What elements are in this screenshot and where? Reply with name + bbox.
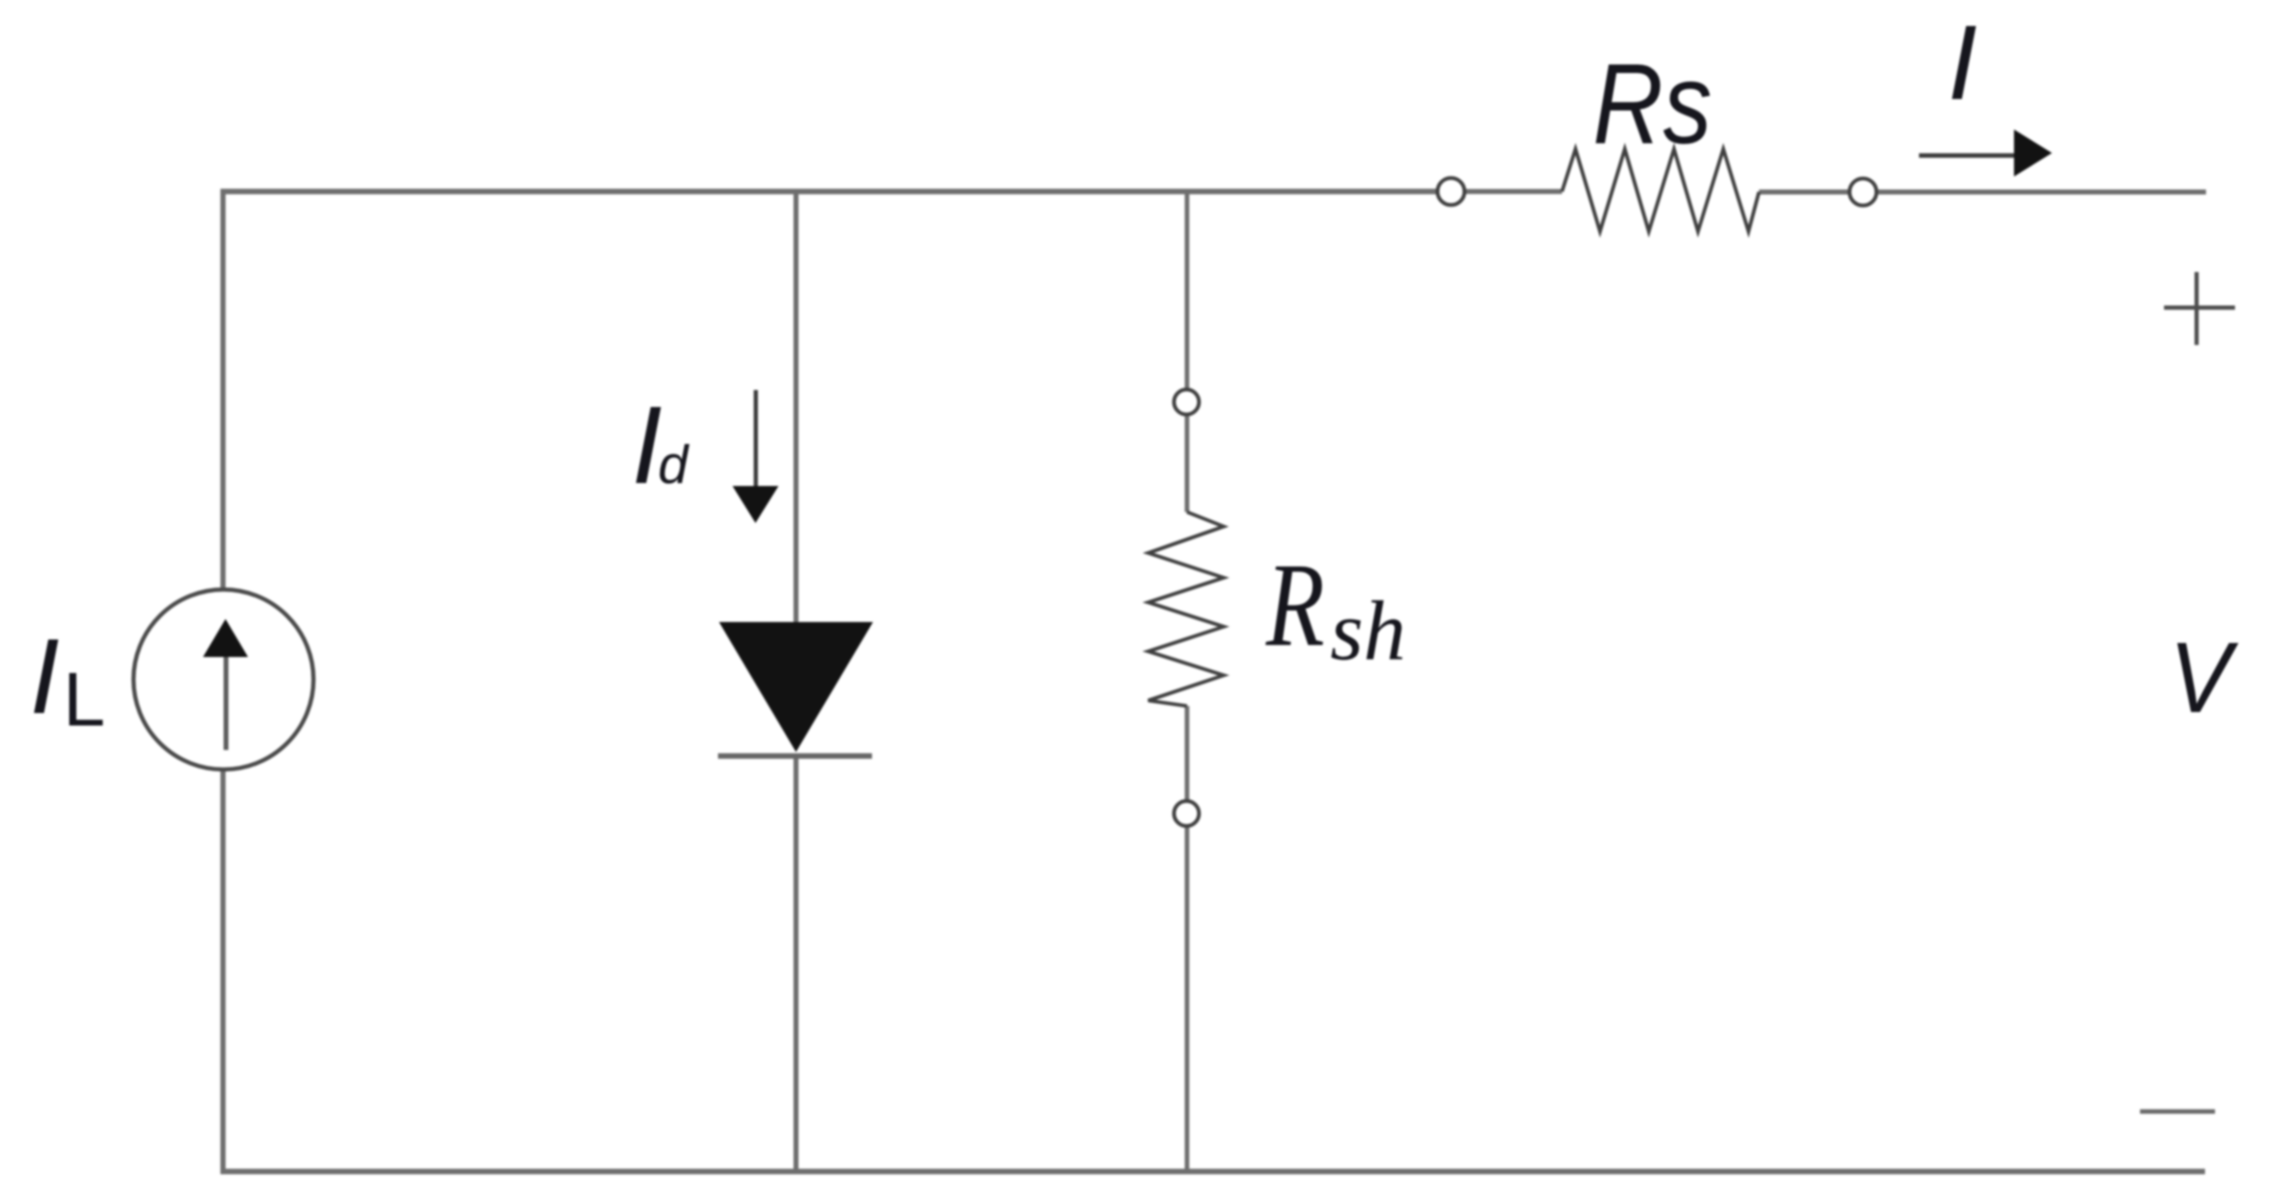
plus terminal <box>2164 272 2235 345</box>
current source IL circle <box>134 590 314 770</box>
resistor Rsh zigzag <box>1148 512 1224 706</box>
svg-text:I: I <box>1948 4 1977 122</box>
svg-text:L: L <box>63 658 105 743</box>
resistor Rs zigzag <box>1562 149 1759 232</box>
wire between node and Rs <box>1465 189 1562 194</box>
svg-text:sh: sh <box>1330 584 1406 678</box>
label V <box>2169 623 2238 734</box>
wire left vertical <box>220 189 225 1174</box>
minus terminal <box>2140 1109 2215 1114</box>
wire top-left horizontal <box>221 189 1438 194</box>
label IL <box>30 616 106 743</box>
resistor Rs right terminal node <box>1850 179 1877 206</box>
diode D cathode bar <box>718 753 872 759</box>
label Rs <box>1593 41 1712 168</box>
label I <box>1948 4 1977 122</box>
resistor Rs left terminal node <box>1438 178 1465 205</box>
label Id <box>632 384 690 507</box>
svg-text:d: d <box>658 435 690 495</box>
resistor Rsh bottom terminal node <box>1174 801 1199 826</box>
label Rsh <box>1265 538 1406 678</box>
current source IL arrow shaft <box>224 654 229 750</box>
wire diode branch <box>794 192 799 1172</box>
wire top-right to output <box>1877 190 2206 195</box>
current source IL arrow head <box>203 619 248 657</box>
svg-text:V: V <box>2169 623 2238 734</box>
svg-text:Rs: Rs <box>1593 41 1712 168</box>
diode D triangle <box>719 622 873 752</box>
arrow I <box>1919 130 2052 177</box>
wire after Rs to node <box>1759 190 1849 195</box>
wire Rsh branch <box>1185 192 1190 1172</box>
svg-text:I: I <box>30 616 60 736</box>
wire bottom horizontal <box>221 1169 2206 1175</box>
svg-text:R: R <box>1265 538 1325 672</box>
resistor Rsh top terminal node <box>1174 390 1199 415</box>
arrow Id <box>733 390 779 523</box>
